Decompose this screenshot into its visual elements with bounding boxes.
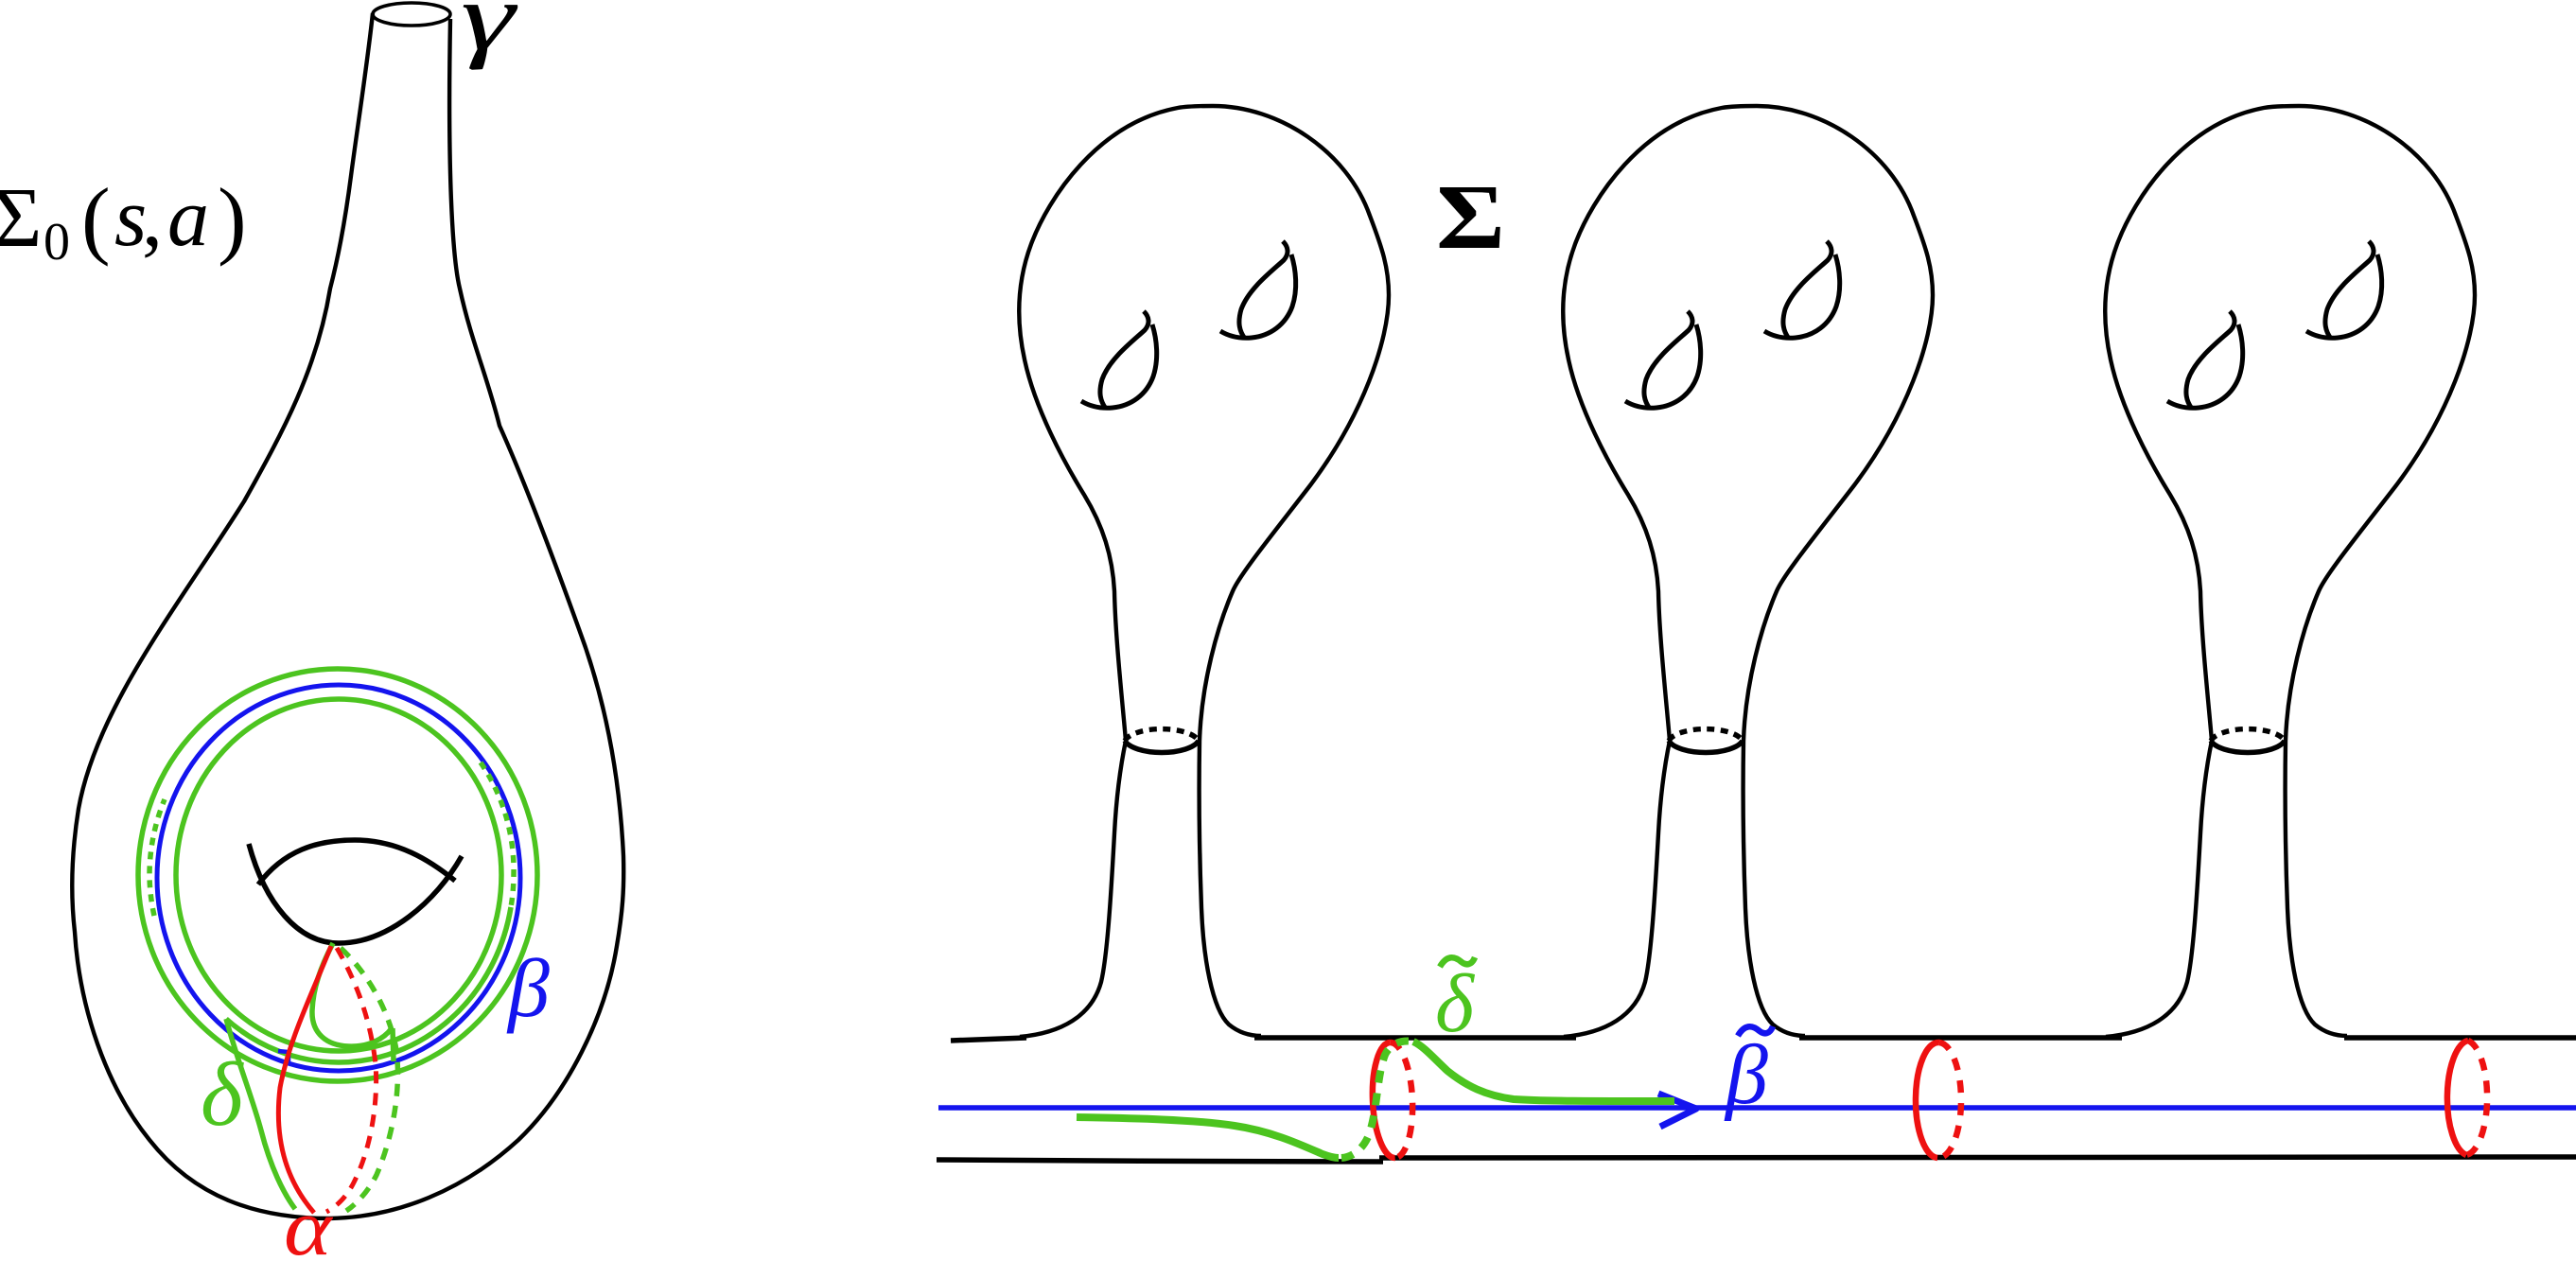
balloon 2 right genus eye arc L: [1783, 241, 1831, 339]
strip top line segment 3: [1799, 1035, 2122, 1041]
red circle 3 dashed back arc: [2466, 1041, 2487, 1155]
curve delta dashed arc left: [149, 799, 165, 916]
curve beta small jog: [278, 1051, 289, 1064]
strip bottom line left part: [937, 1160, 1383, 1162]
balloon 3 outline: [2105, 106, 2475, 1037]
balloon 1 left genus eye arc R: [1081, 324, 1157, 408]
svg-text:0: 0: [44, 213, 70, 271]
curve delta-tilde right solid segment: [1413, 1042, 1674, 1101]
svg-text:Σ: Σ: [0, 171, 42, 265]
red circle 2 dashed back arc: [1937, 1042, 1961, 1158]
balloon 3 neck ellipse solid bottom arc: [2211, 741, 2285, 752]
balloon 3 right genus eye arc L: [2325, 241, 2374, 339]
strip bottom line right part: [1379, 1157, 2576, 1158]
surface Sigma0(s,a) teardrop outline: [72, 13, 623, 1218]
svg-text:δ: δ: [201, 1043, 244, 1145]
balloon 3 left genus eye arc L: [2186, 311, 2234, 409]
balloon 1 neck ellipse dashed top arc: [1125, 729, 1199, 741]
curve beta blue circle: [157, 685, 520, 1071]
boundary circle gamma (tube top ellipse): [373, 3, 450, 26]
svg-text:γ: γ: [461, 0, 518, 71]
balloon 1 neck ellipse solid bottom arc: [1125, 741, 1199, 752]
curve delta hook loop under handle: [312, 943, 392, 1046]
curve delta dashed back part: [341, 948, 397, 1211]
curve beta-tilde arrow head: [1658, 1094, 1696, 1127]
label delta-tilde tilde mark: [1440, 957, 1475, 967]
svg-text:,: ,: [142, 172, 163, 264]
balloon 3 left genus eye arc R: [2167, 324, 2243, 408]
balloon 2 left genus eye arc L: [1644, 311, 1692, 409]
label beta-tilde tilde mark: [1738, 1026, 1773, 1036]
curve delta inner green circle: [176, 699, 501, 1051]
curve alpha dashed back part: [326, 948, 377, 1212]
balloon 2 neck ellipse solid bottom arc: [1669, 741, 1743, 752]
curve delta hook jog vertical: [393, 1028, 394, 1061]
curve delta extra bottom pass green arc: [226, 907, 511, 1062]
balloon 2 neck ellipse dashed top arc: [1669, 729, 1743, 741]
torus handle smile arc: [249, 844, 462, 943]
strip top line segment 2: [1254, 1035, 1576, 1041]
balloon 3 right genus eye arc R: [2306, 254, 2382, 338]
svg-text:a: a: [167, 172, 209, 264]
torus handle upper bulge arc: [258, 840, 455, 884]
curve delta dashed arc right: [481, 762, 514, 907]
balloon 2 right genus eye arc R: [1764, 254, 1840, 338]
svg-text:δ: δ: [1435, 958, 1476, 1050]
balloon 3 neck ellipse dashed top arc: [2211, 729, 2285, 741]
svg-text:): ): [218, 170, 247, 267]
red circle 1 dashed back arc: [1390, 1042, 1414, 1158]
red circle 2 solid front arc: [1916, 1042, 1939, 1158]
curve alpha solid front part: [278, 946, 331, 1213]
svg-text:β: β: [506, 943, 550, 1035]
red circle 1 solid front arc: [1370, 1042, 1414, 1159]
svg-text:α: α: [284, 1182, 334, 1256]
strip top line segment 1: [951, 1038, 1026, 1041]
balloon 1 left genus eye arc L: [1100, 311, 1148, 409]
curve delta-tilde dashed middle part: [1341, 1042, 1413, 1158]
curve delta-tilde left solid segment: [1077, 1117, 1339, 1158]
strip top line segment 4: [2344, 1035, 2576, 1041]
balloon 1 outline: [1019, 106, 1389, 1037]
balloon 1 right genus eye arc R: [1220, 254, 1296, 338]
balloon 2 left genus eye arc R: [1625, 324, 1701, 408]
curve delta outer green circle: [138, 669, 537, 1081]
curve beta-tilde blue line: [938, 1105, 2576, 1111]
svg-text:β: β: [1724, 1028, 1768, 1122]
svg-text:Σ: Σ: [1436, 165, 1505, 268]
balloon 1 right genus eye arc L: [1239, 241, 1288, 339]
balloon 2 outline: [1563, 106, 1933, 1037]
red circle 3 solid front arc: [2447, 1041, 2468, 1155]
svg-text:(: (: [81, 170, 111, 267]
curve delta tail to bottom: [226, 1019, 295, 1209]
